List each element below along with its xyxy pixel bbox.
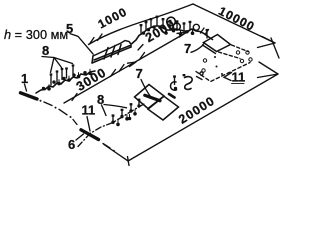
- mid arrow on T1: [128, 62, 137, 67]
- leader of callout 6: [76, 134, 84, 140]
- soil S-curve row 2: [185, 77, 193, 90]
- flag peg before slab R3: [206, 31, 208, 38]
- template board item 5 (vehicle-like slab): [92, 41, 131, 64]
- svg-text:7: 7: [136, 66, 143, 81]
- arrowhead of 10000: [258, 37, 276, 48]
- left extension of 20000 (axis continuation): [104, 145, 128, 162]
- soil loop row 1 small: [173, 23, 180, 30]
- svg-text:11: 11: [232, 70, 246, 85]
- row 2 wavy ground line: [36, 71, 95, 93]
- transverse line T2 dash-dot: [78, 104, 144, 147]
- tick T1 e: [140, 53, 145, 60]
- tick on 1000 dimension: [98, 34, 103, 41]
- tick T1 c: [111, 70, 116, 77]
- corner dots of future slab: [214, 56, 223, 75]
- fan bar of callout 8a: [42, 57, 54, 58]
- svg-text:h = 300 мм: h = 300 мм: [4, 27, 68, 42]
- leaders of callout 8a: [51, 58, 73, 73]
- axis centerline dots: [40, 100, 115, 152]
- dimension line 1000: [89, 4, 194, 45]
- leaders of callout 8b: [104, 105, 127, 108]
- leader of callout 7b: [191, 43, 204, 53]
- corner circles of future slab: [202, 51, 252, 72]
- thick mark below S: [169, 94, 175, 98]
- svg-text:11: 11: [82, 103, 96, 118]
- svg-text:7: 7: [184, 41, 191, 56]
- leader of callout 7a: [141, 80, 151, 97]
- leader of callout 1: [25, 84, 27, 91]
- row 1 wavy ground line: [132, 26, 213, 44]
- svg-text:8: 8: [42, 43, 49, 58]
- underline of callout 11b: [232, 83, 245, 85]
- arrowhead of 20000: [258, 62, 279, 78]
- ticks on row 1 right: [201, 28, 209, 35]
- small cross mark near row 1 start: [138, 45, 143, 51]
- tick T1 d: [119, 65, 124, 72]
- row 2 middle pegs near T2: [111, 99, 140, 127]
- thick station dash across slabs: [145, 95, 160, 100]
- leader of callout 11a: [87, 117, 90, 132]
- bracket of callout 11b: [224, 73, 232, 81]
- soil loop row 1 big: [167, 17, 176, 26]
- axis centerline station dash 1 (thick): [21, 93, 38, 99]
- svg-text:6: 6: [68, 137, 75, 152]
- dimension line 10000: [193, 4, 275, 43]
- small marks right of S: [197, 77, 203, 80]
- right arrow on T1: [177, 32, 187, 37]
- slope slab R3: [204, 35, 231, 52]
- tick T1 a: [72, 94, 77, 101]
- slope slab R1: [135, 85, 165, 109]
- dimension line 20000: [128, 74, 278, 161]
- axis centerline station dash 2 (thick): [81, 130, 99, 140]
- axis centerline dash-dot segments: [44, 102, 110, 148]
- svg-text:8: 8: [97, 92, 104, 107]
- row 2 flag sticks: [50, 64, 75, 85]
- dashed layout lines of future slab: [232, 45, 249, 52]
- label h = 300 mm: [4, 27, 68, 42]
- soil loop row 1 right: [193, 24, 199, 30]
- row 1 pegs: [140, 16, 195, 36]
- transverse line T1: dimension chain 3000+2000: [64, 31, 189, 103]
- slope slab R2: [148, 96, 179, 120]
- right extension slash of 10000: [271, 38, 279, 58]
- soil loop row 2 with flag: [171, 82, 177, 90]
- row 2 pegs: [42, 69, 92, 90]
- tick on 1000 dimension: [90, 38, 95, 45]
- leader of callout 5: [70, 34, 93, 55]
- tick at left end of 20000: [128, 157, 130, 166]
- thickness edge of R3: [203, 45, 216, 54]
